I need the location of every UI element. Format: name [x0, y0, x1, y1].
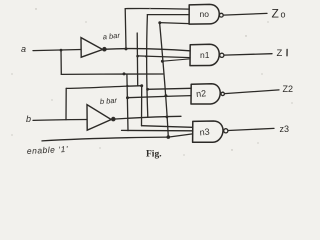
n3 output bubble	[224, 129, 228, 133]
wire b tap to n1	[136, 33, 139, 86]
nand gate U3 n0	[189, 4, 219, 24]
wire enable to n3 bottom input	[168, 134, 192, 137]
wire b branch riser	[65, 88, 67, 119]
node b-n3 tap	[140, 84, 143, 87]
inverter U2 output bubble	[111, 117, 115, 121]
wire a drop	[127, 74, 128, 131]
wire enable to n0 bottom input	[160, 23, 189, 24]
svg-text:z3: z3	[280, 124, 290, 134]
node enable-n1 tap	[161, 60, 164, 63]
wire Z1 output	[224, 54, 272, 55]
wire tap to n1 lower input b	[162, 59, 190, 61]
node crossing n1 line	[145, 55, 147, 57]
svg-text:no: no	[200, 9, 210, 19]
node enable top corner	[158, 21, 161, 24]
wire enable riser	[160, 23, 169, 138]
wire b_bar to n0 mid input	[147, 14, 189, 16]
nand gate U6 n3	[193, 121, 223, 142]
wire a branch horizontal	[61, 73, 163, 75]
svg-text:Z: Z	[272, 7, 279, 21]
paper background	[0, 0, 300, 162]
svg-text:a: a	[21, 44, 26, 54]
node b_bar tap	[146, 88, 149, 91]
wire Z0 output	[223, 13, 267, 15]
svg-text:Z2: Z2	[283, 84, 294, 94]
svg-text:n3: n3	[199, 127, 210, 138]
svg-text:n1: n1	[200, 50, 210, 60]
wire Z3 output	[228, 128, 274, 130]
inverter U1 output bubble	[103, 47, 107, 51]
wire b_bar riser	[147, 15, 148, 117]
svg-text:b bar: b bar	[99, 96, 117, 106]
n0 output bubble	[219, 13, 223, 17]
svg-text:a bar: a bar	[102, 31, 120, 42]
svg-text:Fig.: Fig.	[146, 150, 162, 160]
node riser crossing n2 line	[164, 94, 167, 97]
n2 output bubble	[221, 92, 224, 95]
wire a_bar to n1	[107, 49, 191, 51]
wire a branch down	[60, 50, 62, 74]
wire b_bar output	[116, 116, 182, 119]
wire a_bar to n0 top input	[125, 8, 189, 11]
svg-text:b: b	[26, 114, 31, 124]
wire enable line	[42, 137, 168, 141]
svg-text:o: o	[281, 10, 286, 20]
node enable junction	[167, 135, 171, 139]
wire b branch horizontal	[66, 86, 142, 89]
node a junction	[60, 49, 63, 52]
wire b_bar to n2 top input	[148, 88, 191, 89]
nand gate U5 n2	[191, 84, 220, 104]
wire b input	[33, 119, 87, 122]
wire a bottom horizontal to n3	[122, 129, 193, 131]
inverter U2 (b bar)	[87, 105, 111, 131]
node a-n2 tap	[126, 96, 129, 99]
node riser crossing y118	[166, 116, 169, 119]
inverter U1 (a bar)	[81, 38, 103, 58]
svg-text:n2: n2	[196, 88, 207, 99]
node b-n1 corner	[136, 55, 139, 58]
wire b to n1 lower input	[137, 56, 190, 58]
node a_bar junction	[125, 47, 128, 50]
wire b to n3 input	[142, 126, 193, 128]
wire b drop to n3	[141, 86, 143, 126]
n1 output bubble	[220, 53, 224, 57]
node b-line crossing blob	[126, 85, 128, 87]
node a-net tap	[123, 72, 126, 75]
nand gate U4 n1	[190, 44, 219, 65]
wire Z2 output	[225, 90, 279, 94]
svg-text:Z: Z	[277, 48, 283, 59]
wire a_bar riser	[124, 9, 127, 49]
wire a to n2 lower input	[128, 96, 192, 98]
wire a input	[33, 50, 81, 51]
